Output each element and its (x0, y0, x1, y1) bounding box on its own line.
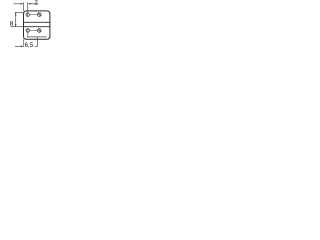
hole lower-right (38, 29, 42, 33)
top dimension line right segment (29, 3, 38, 5)
svg-text:2: 2 (34, 0, 38, 6)
hole upper-right (38, 13, 42, 17)
bottom dimension line right segment (35, 45, 38, 47)
bottom dimension line left segment (15, 45, 23, 47)
bottom dimension extension line left (23, 39, 25, 46)
centerline vertical through upper-left hole (27, 2, 29, 17)
groove line lower (24, 26, 50, 28)
left dimension arrow down (15, 24, 17, 27)
centerline horizontal lower holes (30, 30, 38, 32)
slash mark upper-right hole (38, 13, 41, 16)
groove line upper (24, 21, 50, 23)
left dimension line (15, 13, 17, 27)
svg-text:8: 8 (10, 20, 14, 27)
hole upper-left (26, 13, 29, 16)
svg-text:6,5: 6,5 (25, 42, 34, 49)
top dimension arrow right-pointing (21, 3, 24, 5)
part body outline (24, 11, 50, 39)
slash mark lower-right hole (38, 29, 41, 32)
top dimension arrow left-pointing (28, 3, 31, 5)
hole lower-left (26, 29, 29, 32)
tab edge vertical lower view (36, 37, 38, 47)
top dimension extension line left (23, 2, 25, 11)
bottom dimension arrow right-pointing (21, 46, 24, 48)
left dimension arrow up (15, 13, 17, 16)
centerline vertical through lower-left hole (27, 28, 29, 37)
centerline horizontal upper holes (30, 14, 38, 16)
left dimension extension line bottom (10, 26, 23, 28)
top dimension line left segment (14, 3, 23, 5)
step line bottom (27, 36, 47, 38)
left dimension extension line top (15, 12, 24, 14)
